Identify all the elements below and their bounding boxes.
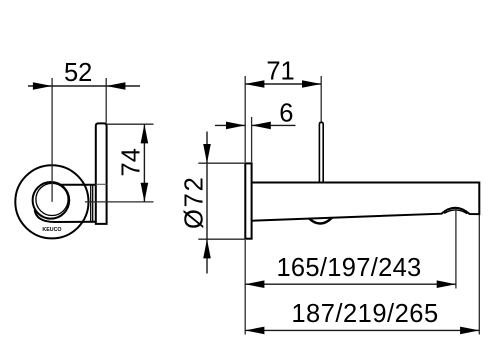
dimension 165/197/243 left arrow <box>245 280 264 288</box>
dimension 6 right tail line <box>252 124 296 126</box>
handle knob outer circle <box>33 182 70 219</box>
svg-text:6: 6 <box>279 100 293 128</box>
dimension D72 top extension line <box>198 162 245 164</box>
underside dip arc <box>309 218 332 224</box>
dimension 187/219/265 right arrow <box>460 327 479 335</box>
dimension 52 line <box>28 85 140 87</box>
dimension 6 left tail line <box>215 124 245 126</box>
dimension 187/219/265 right extension line <box>478 215 480 335</box>
dimension 187/219/265 line <box>245 329 479 331</box>
svg-text:Ø72: Ø72 <box>180 175 208 229</box>
aerator bump inner arc <box>444 210 467 214</box>
dimension D72 bottom arrow <box>203 239 211 258</box>
dimension 74 top arrow <box>141 124 149 143</box>
dimension 74 top extension line <box>107 123 154 125</box>
dimension 74 bottom arrow <box>141 183 149 202</box>
svg-text:71: 71 <box>266 57 294 85</box>
handle knob inner circle <box>36 183 68 215</box>
dimension 52 left arrow <box>33 82 52 90</box>
dimension 71 right arrow <box>302 80 321 88</box>
lever grip end cap lines <box>90 185 92 221</box>
dimension 71 left arrow <box>245 80 264 88</box>
spout pin <box>319 122 323 182</box>
dimension 187/219/265 left arrow <box>245 327 264 335</box>
dimension 165/197/243 right arrow <box>437 280 456 288</box>
dimension 6 extension line right <box>251 117 253 162</box>
lever paddle (side profile bar) <box>96 123 107 223</box>
dimension 165/197/243 left extension line <box>244 240 246 335</box>
dimension 74 bottom extension line <box>85 201 154 203</box>
lever grip top outline <box>61 184 96 186</box>
dimension 6 left arrow <box>226 122 245 130</box>
wall plate (side view) <box>245 163 251 238</box>
svg-text:52: 52 <box>64 59 92 87</box>
dimension D72 top arrow <box>203 144 211 163</box>
svg-text:KEUCO: KEUCO <box>42 227 61 233</box>
dimension 71 extension line left <box>244 76 246 162</box>
dimension 165/197/243 line <box>245 283 456 285</box>
svg-text:165/197/243: 165/197/243 <box>276 254 421 282</box>
dimension 71 line <box>245 83 321 85</box>
lever grip top edge through paddle <box>96 183 107 185</box>
dimension 74 line <box>143 124 145 202</box>
dimension D72 bottom extension line <box>198 238 245 240</box>
svg-text:74: 74 <box>117 148 145 176</box>
spout body (side view) <box>252 183 480 221</box>
lever grip bottom outline <box>35 210 96 223</box>
dimension 52 extension line left <box>51 78 53 202</box>
escutcheon circle (front view) <box>15 165 88 238</box>
svg-text:187/219/265: 187/219/265 <box>291 300 438 328</box>
dimension 52 extension line right <box>105 78 107 123</box>
dimension 71 extension line right <box>320 76 322 122</box>
dimension D72 line <box>206 132 208 274</box>
dimension 6 right arrow <box>252 122 271 130</box>
dimension 52 right arrow <box>106 82 125 90</box>
dimension 165/197/243 right extension line <box>455 209 457 289</box>
